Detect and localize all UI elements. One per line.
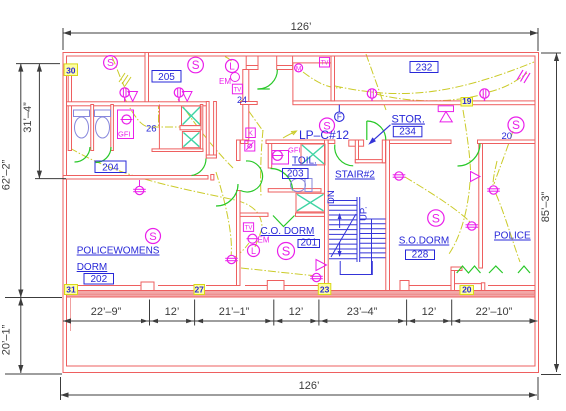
wall V10 S.O.-police xyxy=(479,144,483,269)
wire from smoke detector S1 to light fixture xyxy=(112,57,127,91)
wall B seg1 xyxy=(241,140,249,144)
duplex outlet room202 right xyxy=(227,255,235,263)
room 232 left wall xyxy=(331,56,335,101)
stair arrow up xyxy=(339,214,341,228)
svg-text:31’–4”: 31’–4” xyxy=(22,102,34,133)
svg-text:EM: EM xyxy=(219,77,231,86)
extension line bottom right xyxy=(537,377,539,400)
svg-text:21’–1”: 21’–1” xyxy=(219,306,250,318)
TV outlet box room M xyxy=(320,57,330,67)
toilet stall partition 1 xyxy=(91,105,94,151)
ceiling light room232 a xyxy=(367,89,376,98)
wire big sweep room 204 to C.O. dorm xyxy=(70,148,262,228)
wall between room 30 and room 205 xyxy=(145,53,149,105)
storage arrow xyxy=(370,125,391,143)
X mark closet box 1 xyxy=(183,107,201,125)
room 232 bottom wall xyxy=(293,101,535,105)
smoke detector S4 xyxy=(508,117,524,133)
extension line top right xyxy=(537,28,539,51)
X mark closet middle xyxy=(297,194,324,211)
door arc bathroom stall 1 xyxy=(75,147,91,162)
door jamb cap xyxy=(206,155,216,158)
exit light L with EM circle (room 205) xyxy=(226,60,239,73)
wire police top to outlet xyxy=(493,161,497,185)
svg-text:202: 202 xyxy=(90,274,107,285)
svg-text:S: S xyxy=(512,118,520,132)
wire S.O. outlet to police xyxy=(496,194,520,262)
duplex outlet room202 xyxy=(135,186,143,194)
stair treads right flight xyxy=(360,219,386,258)
shower X frame room 203 xyxy=(301,144,325,165)
svg-text:POLICE: POLICE xyxy=(494,231,531,242)
door jamb wall left xyxy=(206,102,209,159)
svg-text:85’–3”: 85’–3” xyxy=(540,191,552,222)
smoke detector S3 xyxy=(320,118,335,133)
wire vertical at closet xyxy=(158,101,160,127)
C.O. dorm top wall right xyxy=(296,213,325,216)
door threshold bumps xyxy=(141,282,154,291)
extension line left mid xyxy=(35,178,66,180)
wire from S4 down to outlet xyxy=(494,131,513,184)
wall C room204-202 xyxy=(63,176,208,180)
wall triangle S.O. dorm xyxy=(471,172,481,182)
door arc top corridor opening xyxy=(258,70,278,90)
stairwell right wall xyxy=(386,140,390,291)
svg-text:126’: 126’ xyxy=(299,380,320,392)
baseboard zigzag 1 xyxy=(457,266,481,273)
exterior wall outer line xyxy=(63,53,539,373)
storage alcove left wall xyxy=(355,140,358,163)
room M walls xyxy=(293,63,335,102)
wall light triangle 1 xyxy=(128,92,138,102)
svg-text:26: 26 xyxy=(146,124,157,135)
K keypad box xyxy=(246,128,256,138)
svg-text:S: S xyxy=(432,211,440,225)
wire triangle down left xyxy=(449,182,470,254)
svg-text:S: S xyxy=(192,59,200,72)
svg-text:20: 20 xyxy=(462,285,472,295)
door arc toilet 203 xyxy=(271,169,293,191)
svg-text:22’–9”: 22’–9” xyxy=(91,306,122,318)
door arc storage xyxy=(367,121,386,140)
svg-text:TV: TV xyxy=(234,88,242,94)
stair treads left flight xyxy=(329,201,357,259)
ceiling light room232 b xyxy=(480,89,489,98)
X mark closet box 2 xyxy=(183,133,199,147)
door jamb wall right xyxy=(214,102,217,159)
duplex outlet C.O. dorm low xyxy=(312,273,320,281)
toilet 1 xyxy=(74,110,90,117)
duplex outlet stair right xyxy=(395,172,403,180)
stairwell left wall xyxy=(325,140,329,291)
double door V at C.O. dorm xyxy=(273,216,295,227)
svg-text:234: 234 xyxy=(399,127,416,138)
svg-text:205: 205 xyxy=(158,72,175,83)
ceiling light fixture1 xyxy=(120,88,129,97)
stair direction diagonal xyxy=(331,214,356,257)
exit light L C.O. dorm xyxy=(248,245,260,257)
wall B seg2 xyxy=(266,140,325,144)
smoke detector S1 xyxy=(104,56,118,70)
svg-text:20’–1”: 20’–1” xyxy=(1,324,13,355)
svg-text:24: 24 xyxy=(237,95,247,105)
svg-text:S: S xyxy=(107,58,114,69)
room number 201 xyxy=(298,240,320,248)
smoke detector S6 xyxy=(278,243,295,260)
svg-text:L: L xyxy=(229,62,235,73)
toilet room left wall upper xyxy=(268,144,272,169)
wire C.O. dorm to EM cluster xyxy=(255,228,262,247)
toilet room bottom wall xyxy=(268,189,321,192)
svg-text:L: L xyxy=(251,246,256,256)
door number 31 xyxy=(65,285,78,295)
door number 23 xyxy=(318,284,331,295)
left dimension 31-4 xyxy=(38,64,40,179)
extension line left low xyxy=(5,297,62,299)
svg-text:31: 31 xyxy=(66,285,76,295)
wall V9 lower xyxy=(237,191,241,286)
svg-text:DORM: DORM xyxy=(77,262,108,273)
room number 234 xyxy=(393,126,422,136)
wire into exit light L room 205 xyxy=(225,57,232,62)
toilet stall partition 2 xyxy=(111,105,114,151)
wire outlet 202 to EM cluster xyxy=(235,243,249,257)
exterior wall inner line xyxy=(67,56,536,366)
police entry jog left xyxy=(451,267,455,291)
svg-text:DN: DN xyxy=(326,190,337,204)
door number 19 xyxy=(461,98,473,107)
wire between 232 lights xyxy=(376,94,484,101)
wall B stub at stair door xyxy=(328,140,335,144)
top dimension line 126ft xyxy=(63,32,538,34)
wall below panel 30 / bathroom left xyxy=(68,76,71,151)
conductor slashes room 232 xyxy=(517,70,530,83)
svg-text:M: M xyxy=(296,65,301,72)
wire fixture1 down through closet xyxy=(125,99,181,127)
dim tick x=451.7 xyxy=(451,300,453,326)
svg-text:STAIR#2: STAIR#2 xyxy=(335,170,375,181)
wire corridor vertical xyxy=(261,130,263,196)
fan F circle xyxy=(335,112,344,121)
projector symbol xyxy=(438,106,453,112)
bottom wall mid line xyxy=(67,293,536,295)
svg-text:232: 232 xyxy=(416,62,433,73)
smoke detector S2 xyxy=(188,57,204,73)
svg-text:LP–C#12: LP–C#12 xyxy=(299,128,349,142)
stair landing outline xyxy=(340,261,372,275)
svg-text:19: 19 xyxy=(462,96,472,106)
room number 232 xyxy=(410,62,438,73)
svg-text:12’: 12’ xyxy=(422,306,437,318)
smoke detector S7 xyxy=(428,210,444,226)
svg-text:GFI: GFI xyxy=(118,130,131,139)
duplex outlet S.O. dorm b xyxy=(489,186,497,194)
GFI outlet toilet 203 xyxy=(272,151,289,165)
svg-text:30: 30 xyxy=(66,66,76,76)
dim tick x=194.6 xyxy=(194,300,196,326)
wall B seg4 xyxy=(390,140,452,144)
wire conductor slashes (left) xyxy=(119,73,131,86)
wall C door cap xyxy=(211,175,214,181)
dim tick x=273.8 xyxy=(273,300,275,326)
storage alcove bottom xyxy=(355,160,385,163)
bottom dimension line 126ft xyxy=(61,394,538,396)
svg-text:TOIL.: TOIL. xyxy=(292,156,317,167)
door number 20 xyxy=(460,286,474,295)
homerun arrowhead xyxy=(292,131,297,135)
door arc bathroom stall 2 xyxy=(96,147,111,163)
wall triangle C.O. dorm xyxy=(316,260,327,271)
police entry jog right xyxy=(481,283,484,291)
door arc corridor middle xyxy=(216,184,238,206)
wall V9 upper xyxy=(237,140,241,161)
wire light to slashes 232 xyxy=(489,73,527,92)
stair arrow down xyxy=(339,242,341,256)
right dimension 85-3 xyxy=(556,53,558,372)
bottom segmented dimension line xyxy=(63,320,538,322)
bottom wall thick band xyxy=(67,291,536,298)
door jamb left of corridor opening xyxy=(246,56,258,70)
extension line right top xyxy=(541,52,561,54)
X mark shower 203 xyxy=(302,145,324,164)
room number 205 xyxy=(152,71,181,83)
svg-text:STOR.: STOR. xyxy=(392,114,425,126)
C.O. dorm top wall left xyxy=(240,213,268,216)
TV outlet box C.O. dorm xyxy=(243,223,253,232)
door jamb right of corridor opening xyxy=(277,56,293,70)
svg-text:201: 201 xyxy=(300,237,317,248)
svg-text:F: F xyxy=(337,113,342,122)
door number 27 xyxy=(194,285,205,295)
bottom wall top line with door gaps xyxy=(78,285,141,287)
wall V3 xyxy=(243,70,249,141)
closet bottom wall xyxy=(152,149,203,152)
X closet middle frame xyxy=(296,193,325,212)
red extension line below door 31 xyxy=(70,298,72,331)
storage alcove left jamb cap xyxy=(349,140,364,146)
svg-text:TV: TV xyxy=(245,226,253,232)
left dimension 62-2 xyxy=(20,64,22,298)
svg-text:S: S xyxy=(282,243,291,258)
wall A bathroom-corridor top xyxy=(67,102,208,106)
svg-text:12’: 12’ xyxy=(289,306,304,318)
wire police door down to triangle xyxy=(463,110,471,170)
room number 202 xyxy=(84,274,114,285)
EM outlet C.O. dorm xyxy=(248,234,257,243)
wire M room xyxy=(303,72,341,88)
svg-text:S: S xyxy=(149,231,156,243)
door arc stair room xyxy=(335,145,354,166)
door number 30 xyxy=(64,64,77,76)
wire from 24 panel down corridor xyxy=(241,100,263,131)
wire C.O. dorm horizontal to outlet xyxy=(241,268,313,276)
closet X box 2 frame xyxy=(182,132,200,148)
GFI outlet bathroom box xyxy=(118,110,134,139)
toilet room 203 xyxy=(305,179,312,192)
door leaf top corridor opening xyxy=(257,88,270,90)
wire homerun arrow near LP panel xyxy=(283,132,296,139)
svg-text:23: 23 xyxy=(320,285,330,295)
stair center rail xyxy=(357,197,360,262)
svg-text:126’: 126’ xyxy=(291,21,312,33)
svg-text:203: 203 xyxy=(287,168,304,179)
door arc S.O. dorm entry xyxy=(458,144,481,167)
svg-text:C.O. DORM: C.O. DORM xyxy=(261,226,315,237)
svg-text:S.O.DORM: S.O.DORM xyxy=(399,236,450,247)
door arc corridor top-left xyxy=(192,159,207,176)
extension line bottom left xyxy=(60,377,62,400)
extension line right bottom xyxy=(541,374,561,376)
door leaf storage xyxy=(366,121,368,140)
dim tick x=406.6 xyxy=(406,300,408,326)
extension line top left xyxy=(62,28,64,50)
stair handrail right xyxy=(371,219,373,275)
wire room 232 long sweep xyxy=(335,62,534,94)
wire fixture2 sweep to corridor xyxy=(178,99,233,168)
ceiling light fixture2 xyxy=(174,88,183,97)
police entry raised sill xyxy=(455,283,482,285)
wall light triangle 2 xyxy=(182,92,192,102)
left dimension 20-1 xyxy=(20,298,22,374)
wall B seg5 xyxy=(478,140,536,144)
svg-text:12’: 12’ xyxy=(165,306,180,318)
svg-text:TV: TV xyxy=(321,61,329,67)
room number 203 xyxy=(283,169,309,179)
wire storage outlet diagonal to S.O. outlet xyxy=(405,177,470,222)
door arc C.O. dorm entry xyxy=(241,161,263,192)
wire diag to outlet room 202 xyxy=(216,172,231,256)
dim tick x=149.5 xyxy=(149,300,151,326)
extension line left top xyxy=(16,63,60,65)
TV outlet box room 205 xyxy=(232,84,242,94)
dim tick x=318.9 xyxy=(318,300,320,326)
baseboard zigzag 3 xyxy=(518,266,530,273)
svg-text:23’–4”: 23’–4” xyxy=(347,306,378,318)
switch box with diagonal xyxy=(245,141,255,151)
closet right wall xyxy=(200,105,203,151)
wall A2 segment xyxy=(241,102,258,105)
baseboard zigzag 2 xyxy=(489,266,503,273)
svg-text:K: K xyxy=(248,129,253,138)
svg-text:228: 228 xyxy=(412,249,429,260)
closet X box 1 frame xyxy=(182,106,202,126)
storage alcove right wall xyxy=(382,140,385,163)
svg-text:204: 204 xyxy=(102,162,119,173)
room number 228 xyxy=(406,250,435,260)
wire diagonal through 232 wall xyxy=(366,54,386,110)
motor M circle xyxy=(295,64,303,72)
closet shelf divider xyxy=(180,126,201,130)
svg-text:27: 27 xyxy=(194,285,204,295)
police entry jog cap xyxy=(451,267,462,271)
room number 204 xyxy=(95,161,126,173)
toilet 2 xyxy=(95,110,111,117)
svg-text:UP.: UP. xyxy=(359,206,370,221)
svg-text:POLICEWOMENS: POLICEWOMENS xyxy=(77,246,160,257)
svg-text:GFI: GFI xyxy=(288,146,301,155)
closet left wall line xyxy=(158,105,160,151)
duplex outlet S.O. dorm xyxy=(468,222,476,230)
extension line left bottom xyxy=(5,373,62,375)
svg-text:20: 20 xyxy=(502,131,513,142)
svg-text:22’–10”: 22’–10” xyxy=(476,306,513,318)
svg-text:62’–2”: 62’–2” xyxy=(1,159,13,190)
smoke detector S5 xyxy=(146,229,161,244)
